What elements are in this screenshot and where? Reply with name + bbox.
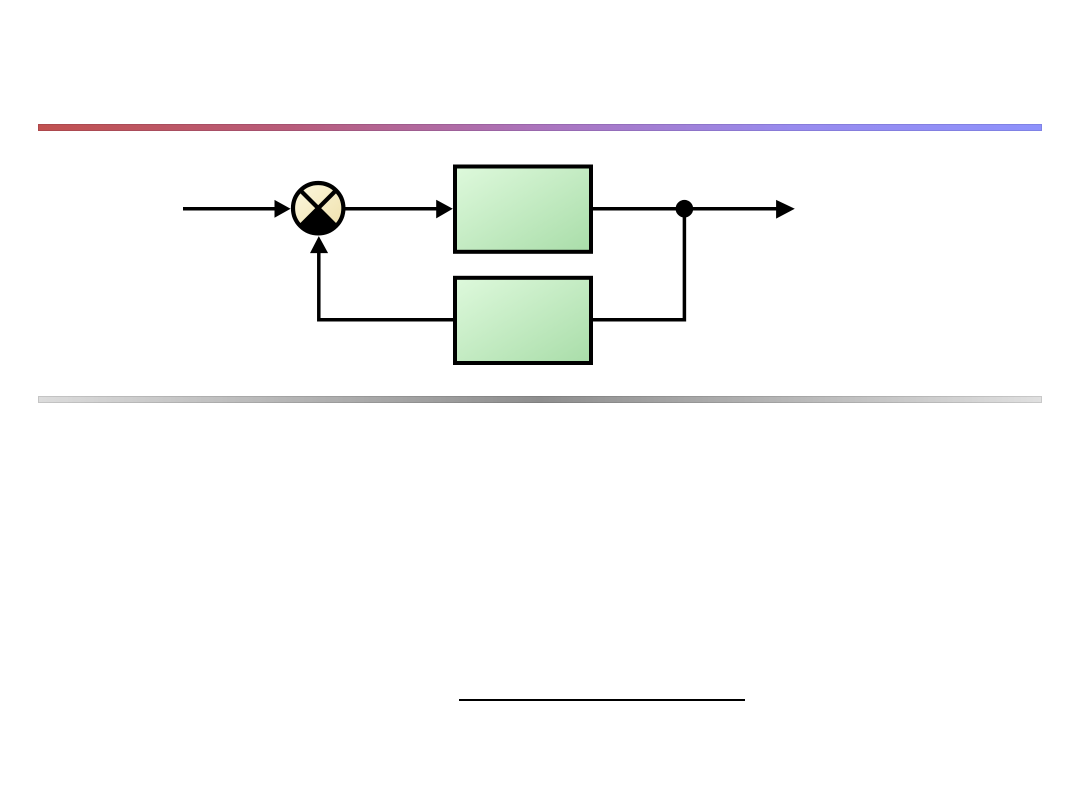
summing junction X diagonal 2 [300, 190, 336, 226]
summing junction X diagonal 1 [300, 190, 336, 226]
wire: pickoff down and left into feedback block [592, 209, 684, 320]
fraction bar line [459, 699, 745, 701]
wire: feedback block left and up to summing junction [319, 252, 453, 320]
arrowhead: input into summing junction [275, 200, 291, 218]
arrowhead: into forward block [436, 200, 453, 219]
section divider bar (gray gradient) [38, 396, 1042, 403]
wire: summing junction to forward block [345, 207, 438, 211]
forward block G(s) [455, 167, 591, 252]
summing junction circle [293, 183, 343, 233]
wire: input line [183, 207, 278, 211]
feedback block H(s) [455, 278, 591, 363]
summing junction bottom black wedge [300, 208, 336, 233]
arrowhead: feedback up into summing junction [310, 236, 328, 253]
node: pickoff point dot [676, 200, 694, 218]
wire: forward block to output [593, 207, 777, 211]
title underline bar (red-to-blue gradient) [38, 124, 1042, 131]
arrowhead: output [776, 200, 795, 219]
